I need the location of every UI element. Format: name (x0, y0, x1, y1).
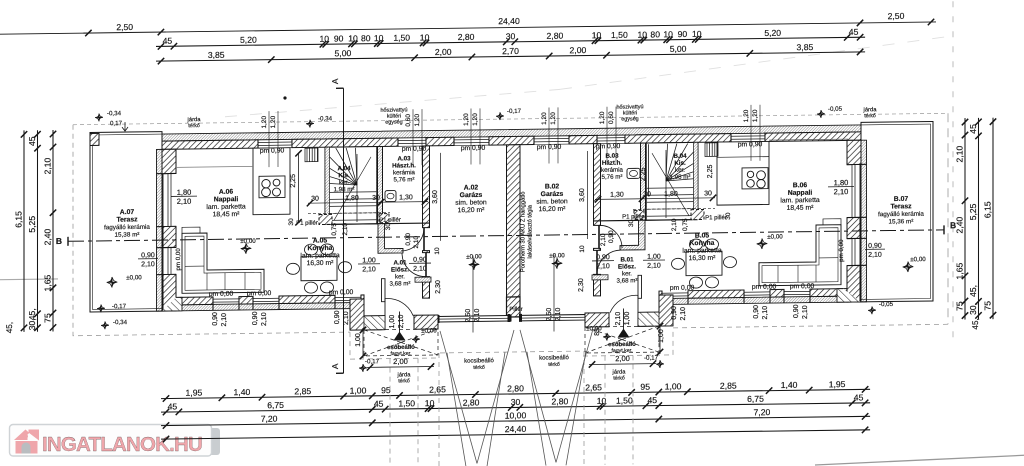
radiator marks top wall A (305, 148, 318, 162)
svg-text:30,: 30, (27, 318, 37, 330)
door arc hall A lower (402, 253, 426, 277)
top -0,34 star (306, 120, 314, 128)
svg-text:P1 pillér: P1 pillér (296, 221, 318, 227)
svg-text:térkő: térkő (473, 365, 485, 371)
stray dot (283, 96, 286, 99)
dim pair hall A (358, 257, 380, 273)
svg-text:2,10: 2,10 (555, 307, 562, 321)
svg-text:pm 0,00: pm 0,00 (752, 284, 777, 291)
garage B right wall (594, 144, 601, 226)
garage B right wall lower (594, 274, 601, 296)
washbasin B.03 (627, 168, 640, 178)
watermark INGATLANOK.HU (10, 425, 221, 457)
svg-text:B.05: B.05 (695, 232, 710, 239)
elev -0,34 terrace A (101, 321, 109, 329)
svg-text:16,20 m²: 16,20 m² (458, 207, 486, 214)
wall below stairs A (325, 223, 429, 224)
svg-text:2,10: 2,10 (596, 263, 610, 270)
svg-text:B.07: B.07 (894, 196, 909, 203)
svg-text:1,20: 1,20 (463, 113, 470, 126)
svg-text:3,60: 3,60 (432, 190, 439, 204)
left exterior wall with openings (157, 149, 177, 311)
svg-text:2,10: 2,10 (615, 312, 622, 326)
top exterior wall with windows (162, 125, 861, 149)
svg-text:2,10: 2,10 (342, 222, 349, 235)
bottom wall living B with windows (659, 288, 861, 304)
svg-text:2,00: 2,00 (615, 354, 630, 363)
svg-text:80: 80 (650, 29, 660, 39)
sofa A.06 L-shaped (182, 226, 264, 293)
dim top row1 24,40 line (161, 10, 936, 35)
dim left chain 6,15 (14, 130, 28, 332)
svg-text:1,65: 1,65 (955, 262, 965, 279)
garage A left wall lower (423, 277, 430, 299)
svg-text:0,90: 0,90 (608, 230, 615, 243)
wall below stairs B (594, 220, 698, 221)
svg-text:30,: 30, (968, 303, 978, 315)
scan artifact dashes (225, 36, 950, 116)
svg-text:6,75: 6,75 (267, 400, 284, 410)
svg-text:-0,17: -0,17 (507, 108, 522, 115)
central pier Pillér (507, 297, 521, 317)
svg-text:6,75: 6,75 (747, 394, 764, 404)
svg-text:0,90: 0,90 (413, 257, 427, 264)
svg-text:1,00: 1,00 (355, 333, 362, 347)
wall hall A L-piece (378, 223, 403, 253)
svg-text:0,17: 0,17 (110, 120, 123, 127)
svg-text:1,80: 1,80 (345, 195, 359, 202)
svg-text:2,10: 2,10 (680, 307, 687, 321)
svg-text:3,85: 3,85 (797, 42, 814, 52)
svg-text:1,00: 1,00 (389, 315, 396, 329)
svg-text:2,80: 2,80 (552, 396, 569, 406)
svg-text:2,10: 2,10 (141, 261, 155, 268)
dining table B with chairs (672, 239, 737, 289)
room label A.05 Konyha (300, 237, 340, 267)
svg-text:30: 30 (506, 31, 516, 41)
svg-text:P1 pillér: P1 pillér (705, 215, 727, 221)
left bottom wall corner (162, 297, 182, 311)
room label A.01 Eloszoba (390, 259, 411, 287)
bottom wall living A with windows (162, 295, 364, 311)
elev ±0,00 living B (757, 238, 767, 249)
svg-text:90: 90 (334, 33, 344, 43)
door arc hall A upper (401, 228, 424, 251)
svg-text:pm 0,00: pm 0,00 (838, 239, 845, 262)
svg-text:10: 10 (663, 29, 673, 39)
svg-text:2,10: 2,10 (413, 266, 427, 273)
svg-text:1,80: 1,80 (664, 191, 678, 198)
dim left chain 45|5,25|45 (27, 130, 41, 332)
pier P1 B-left (634, 210, 644, 219)
svg-text:Terasz: Terasz (890, 203, 912, 210)
svg-text:2,10: 2,10 (474, 308, 481, 322)
svg-text:1,65: 1,65 (43, 274, 53, 291)
svg-text:2,00: 2,00 (570, 45, 587, 55)
svg-text:fagyálló kerámia: fagyálló kerámia (878, 211, 924, 219)
svg-text:B.06: B.06 (793, 182, 808, 189)
wall stair A right (378, 146, 383, 223)
svg-text:pm 0,00: pm 0,00 (175, 248, 182, 271)
svg-text:lam. parketta: lam. parketta (682, 247, 722, 255)
terrace A.07 outline (90, 132, 162, 312)
svg-text:kocsibeálló: kocsibeálló (464, 358, 494, 364)
svg-text:pm 0,90: pm 0,90 (461, 145, 486, 152)
svg-text:0,75: 0,75 (331, 223, 338, 236)
svg-text:2,85: 2,85 (720, 381, 737, 391)
svg-text:45: 45 (27, 136, 37, 146)
svg-text:10: 10 (692, 29, 702, 39)
dim right chain 2,10|2,40|1,65 (955, 118, 969, 320)
room label B.06 Nappali (780, 182, 820, 212)
elev -0,05 terrace B (868, 306, 876, 314)
central party wall (507, 145, 521, 297)
svg-text:2,80: 2,80 (547, 31, 564, 41)
svg-text:kocsibeálló: kocsibeálló (539, 355, 569, 361)
pier P1 A-right (379, 214, 389, 223)
svg-text:Garázs: Garázs (460, 192, 483, 199)
svg-text:1,95: 1,95 (829, 379, 846, 389)
elev ±0,00 living A (241, 243, 251, 254)
svg-text:2,80: 2,80 (507, 383, 524, 393)
svg-text:1,98 m²: 1,98 m² (670, 174, 691, 181)
svg-text:10: 10 (579, 245, 586, 253)
svg-text:10: 10 (434, 247, 441, 255)
wall above porch A (415, 277, 431, 282)
top -0,05 star (817, 110, 825, 118)
svg-text:1,50: 1,50 (393, 33, 410, 43)
svg-text:1,20: 1,20 (743, 109, 750, 122)
dining table A with chairs (287, 244, 352, 294)
svg-text:45,: 45, (971, 318, 980, 330)
room label A.07 Terasz (104, 209, 150, 239)
terrace door dim B (828, 178, 854, 196)
svg-text:1,40: 1,40 (781, 380, 798, 390)
svg-text:30: 30 (704, 190, 712, 197)
svg-text:2,25: 2,25 (707, 164, 714, 178)
elev ±0,00 garage A (469, 259, 479, 270)
svg-text:0,90: 0,90 (671, 306, 678, 320)
dim left chain 2,10|2,40|1,65 (43, 130, 57, 332)
svg-text:85: 85 (594, 328, 601, 336)
svg-text:0,90: 0,90 (141, 252, 155, 259)
dim bottom row2 (161, 392, 870, 415)
svg-text:80: 80 (361, 33, 371, 43)
dim bottom row1 (161, 379, 870, 402)
svg-text:±0,00: ±0,00 (126, 274, 142, 281)
svg-text:24,40: 24,40 (505, 424, 527, 434)
dim bottom row4 (161, 419, 870, 442)
elev ±0,00 terrace B (903, 262, 913, 273)
svg-text:2,30: 2,30 (435, 280, 442, 294)
svg-text:-0,17: -0,17 (365, 358, 380, 365)
svg-text:±0,00: ±0,00 (466, 253, 482, 260)
dim top row3 (156, 41, 865, 64)
kitchen counter + stove B (717, 141, 769, 205)
svg-text:24,40: 24,40 (498, 16, 520, 26)
svg-text:P1 pillér: P1 pillér (622, 214, 644, 220)
svg-text:1,98 m²: 1,98 m² (334, 186, 355, 193)
svg-text:±0,00: ±0,00 (767, 233, 783, 240)
svg-text:2,00: 2,00 (435, 47, 452, 57)
svg-text:5,00: 5,00 (335, 48, 352, 58)
svg-text:±0,00: ±0,00 (910, 256, 926, 263)
room label B.07 Terasz (878, 196, 924, 226)
svg-text:10,00: 10,00 (505, 410, 527, 420)
site boundary dashed (73, 113, 948, 466)
kitchen counter + stove A (253, 148, 290, 215)
svg-text:2,65: 2,65 (585, 382, 602, 392)
svg-text:1,20: 1,20 (414, 113, 421, 126)
svg-text:45: 45 (168, 401, 178, 411)
svg-text:1,30: 1,30 (610, 192, 624, 199)
staircase B (642, 105, 741, 220)
svg-text:30: 30 (628, 219, 635, 227)
svg-text:0,90: 0,90 (793, 304, 800, 318)
svg-text:2,10: 2,10 (43, 157, 53, 174)
svg-text:2,10: 2,10 (413, 235, 420, 248)
washbasin A.03 (385, 191, 396, 202)
room label B.04 Kis ker (670, 153, 691, 181)
svg-text:térkő: térkő (613, 376, 625, 382)
elev -0,17 terrace A (97, 305, 105, 313)
svg-text:1,80: 1,80 (177, 188, 192, 197)
svg-text:5,20: 5,20 (240, 35, 257, 45)
svg-text:5,76 m²: 5,76 m² (394, 176, 415, 183)
svg-text:B: B (56, 236, 62, 246)
svg-text:pm 0,90: pm 0,90 (260, 147, 285, 154)
left wall window dim (138, 252, 158, 268)
garage door jambs (437, 313, 594, 323)
svg-text:A.02: A.02 (464, 184, 479, 191)
svg-text:2,70: 2,70 (502, 46, 519, 56)
svg-text:30: 30 (288, 218, 295, 226)
svg-text:1,00: 1,00 (658, 329, 665, 343)
svg-text:45: 45 (648, 395, 658, 405)
svg-text:±0,00: ±0,00 (240, 238, 256, 245)
svg-text:16,30 m²: 16,30 m² (689, 255, 717, 262)
terrace B.07 outline (861, 121, 933, 301)
stray gray line bottom right (815, 455, 1024, 465)
svg-text:2,25: 2,25 (290, 174, 297, 188)
svg-text:-0,17: -0,17 (644, 355, 659, 362)
wall hall B L-piece (620, 220, 645, 250)
svg-text:0,60: 0,60 (405, 114, 412, 127)
porch B esőbeálló (585, 295, 673, 382)
svg-text:Konyha: Konyha (690, 240, 715, 247)
svg-text:1,95: 1,95 (186, 388, 203, 398)
stray gray line left (0, 278, 58, 281)
dim right chain 45|5,25|45 (968, 118, 982, 320)
svg-text:1,20: 1,20 (550, 112, 557, 125)
dim pair hall B (643, 253, 665, 269)
svg-text:1,80: 1,80 (834, 178, 849, 187)
svg-text:3,68 m²: 3,68 m² (617, 277, 638, 284)
svg-text:Nappali: Nappali (214, 196, 239, 203)
room label A.02 Garazs (455, 184, 487, 214)
svg-text:1,00: 1,00 (665, 381, 682, 391)
svg-text:75: 75 (983, 301, 993, 311)
svg-text:Nappali: Nappali (788, 190, 813, 197)
svg-text:pm 0,90: pm 0,90 (738, 141, 763, 148)
svg-text:2,10: 2,10 (261, 312, 268, 326)
svg-text:térkő: térkő (188, 123, 200, 129)
left wall top corner block (162, 149, 176, 173)
svg-text:1,40: 1,40 (234, 387, 251, 397)
section line B-B (68, 225, 944, 245)
svg-text:2,10: 2,10 (177, 197, 192, 206)
room label B.03 Hazth (601, 153, 624, 181)
svg-text:2,10: 2,10 (671, 218, 678, 231)
svg-text:0,60: 0,60 (608, 111, 615, 124)
wall stair B left (641, 143, 646, 220)
svg-text:45: 45 (968, 124, 978, 134)
radiator marks top wall B (705, 143, 718, 157)
door arc hall B lower (597, 250, 621, 274)
svg-text:1,20: 1,20 (599, 111, 606, 124)
svg-text:30: 30 (372, 195, 380, 202)
right wall window dim (865, 243, 885, 259)
svg-text:5,25: 5,25 (27, 216, 37, 233)
svg-text:B: B (950, 220, 956, 230)
svg-text:45: 45 (163, 36, 173, 46)
right exterior wall with openings (847, 140, 867, 302)
svg-text:1,50: 1,50 (398, 398, 415, 408)
svg-text:2,10: 2,10 (343, 311, 350, 325)
svg-text:lam. parketta: lam. parketta (300, 252, 340, 260)
svg-text:45: 45 (854, 392, 864, 402)
svg-text:95: 95 (381, 385, 391, 395)
svg-text:0,90: 0,90 (596, 254, 610, 261)
svg-text:A: A (330, 363, 340, 369)
carport V lines B (520, 329, 593, 466)
svg-text:±0,00: ±0,00 (549, 252, 565, 259)
elev ±0,00 garage B (552, 258, 562, 269)
svg-text:6,15: 6,15 (983, 201, 993, 218)
svg-text:pm 0,00: pm 0,00 (247, 290, 272, 297)
dim top row2 (156, 27, 865, 50)
room label B.02 Garazs (536, 183, 568, 213)
svg-text:-0,05: -0,05 (879, 301, 894, 308)
svg-text:egység: egység (621, 116, 638, 122)
svg-text:1,50: 1,50 (611, 30, 628, 40)
svg-text:A.06: A.06 (219, 189, 234, 196)
svg-text:2,00: 2,00 (393, 357, 408, 366)
svg-text:45,: 45, (968, 285, 978, 297)
svg-text:A.05: A.05 (313, 237, 328, 244)
svg-text:5,25: 5,25 (968, 203, 978, 220)
svg-text:INGATLANOK.HU: INGATLANOK.HU (42, 433, 202, 456)
right wall top corner block (847, 140, 861, 164)
svg-text:-0,34: -0,34 (318, 115, 333, 122)
svg-text:1,20: 1,20 (752, 109, 759, 122)
svg-text:A.07: A.07 (120, 209, 135, 216)
wall hall A lower stub (382, 279, 386, 302)
wall hall B lower stub (638, 275, 642, 298)
svg-text:75: 75 (43, 313, 53, 323)
svg-text:0,90: 0,90 (212, 312, 219, 326)
svg-text:-0,34: -0,34 (107, 110, 122, 117)
svg-text:45: 45 (374, 399, 384, 409)
svg-text:1,20: 1,20 (270, 115, 277, 128)
svg-text:15,38 m²: 15,38 m² (115, 231, 140, 238)
svg-text:A: A (330, 78, 340, 84)
svg-text:1,20: 1,20 (472, 113, 479, 126)
svg-text:térkő: térkő (398, 378, 410, 384)
svg-text:térkő: térkő (864, 113, 876, 119)
svg-text:±0,00: ±0,00 (421, 327, 437, 334)
garage bottom wall strip B (520, 314, 593, 320)
svg-text:30: 30 (385, 223, 392, 231)
garage A left wall (423, 146, 430, 228)
svg-text:pm 0,00: pm 0,00 (790, 283, 815, 290)
room label B.05 Konyha (682, 232, 722, 262)
room label A.06 Nappali (206, 188, 246, 218)
svg-text:sim. beton: sim. beton (536, 198, 568, 205)
svg-text:2,50: 2,50 (546, 308, 553, 322)
svg-text:pm 0,00: pm 0,00 (209, 291, 234, 298)
svg-text:lam. parketta: lam. parketta (780, 197, 820, 205)
svg-text:10: 10 (420, 32, 430, 42)
svg-text:2,10: 2,10 (834, 187, 849, 196)
svg-text:lam. parketta: lam. parketta (206, 203, 246, 211)
svg-text:térkő: térkő (548, 362, 560, 368)
svg-text:egység: egység (385, 119, 402, 125)
section line A-A (336, 88, 344, 373)
svg-text:-0,34: -0,34 (113, 319, 128, 326)
svg-text:16,20 m²: 16,20 m² (539, 206, 567, 213)
svg-text:pm 0,90: pm 0,90 (402, 146, 427, 153)
svg-text:1,00: 1,00 (350, 385, 367, 395)
carport V lines A (440, 330, 514, 466)
svg-text:5,00: 5,00 (670, 44, 687, 54)
svg-text:Porotherm 30 AKU Z hanggátló: Porotherm 30 AKU Z hanggátló (521, 192, 527, 273)
top -0,17 star (496, 112, 504, 120)
svg-text:2,10: 2,10 (868, 252, 882, 259)
svg-text:3,68 m²: 3,68 m² (390, 280, 411, 287)
svg-text:2,10: 2,10 (802, 305, 809, 319)
right bottom wall corner (837, 288, 861, 302)
svg-text:3,85: 3,85 (208, 50, 225, 60)
svg-text:0,90: 0,90 (334, 310, 341, 324)
svg-text:sim. beton: sim. beton (455, 199, 487, 206)
svg-text:75: 75 (955, 301, 965, 311)
svg-text:2,80: 2,80 (458, 32, 475, 42)
svg-text:2,10: 2,10 (762, 306, 769, 320)
svg-text:1,00: 1,00 (362, 257, 376, 264)
svg-text:45,: 45, (5, 322, 14, 334)
svg-text:10: 10 (348, 33, 358, 43)
svg-text:95: 95 (640, 382, 650, 392)
svg-text:1,20: 1,20 (541, 112, 548, 125)
wall above porch B (592, 275, 608, 280)
dim top row1 left ext (0, 33, 88, 34)
garage B right wall mid (594, 248, 601, 250)
svg-text:0,90: 0,90 (252, 311, 259, 325)
svg-text:-0,05: -0,05 (828, 106, 843, 113)
svg-text:pm 0,90: pm 0,90 (596, 143, 621, 150)
svg-text:lakáselválasztó tégla: lakáselválasztó tégla (528, 204, 534, 258)
svg-text:2,40: 2,40 (43, 228, 53, 245)
dim bottom row3 (161, 406, 870, 429)
svg-text:30: 30 (511, 397, 521, 407)
svg-text:15,36 m²: 15,36 m² (889, 218, 914, 225)
svg-text:10: 10 (320, 34, 330, 44)
svg-text:1,30: 1,30 (399, 194, 413, 201)
sofa B.06 L-shaped (759, 219, 841, 286)
garage A left wall mid (423, 251, 430, 253)
svg-text:5,20: 5,20 (764, 28, 781, 38)
